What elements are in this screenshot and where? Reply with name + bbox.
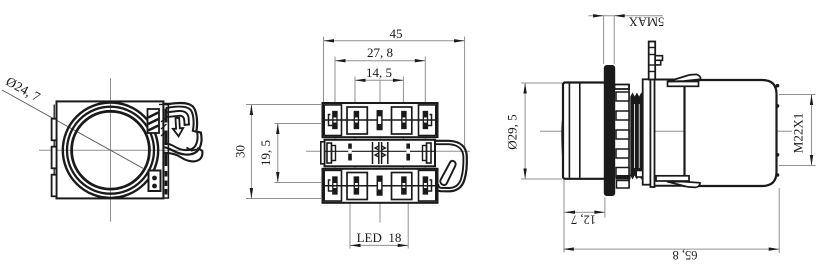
- strip dash 4: [165, 171, 168, 177]
- thread bottom tail: [616, 175, 631, 180]
- latch arrow: [173, 118, 183, 137]
- 5max ext right: [613, 16, 615, 64]
- dia29.5 ext bottom: [521, 178, 562, 180]
- centerline vertical: [110, 78, 112, 221]
- row3 cell A: [347, 173, 367, 200]
- terminal row 2 outer: [325, 140, 436, 167]
- cap face arc: [562, 116, 563, 162]
- latch hook step: [187, 148, 198, 151]
- terminal row 1 outer: [323, 103, 438, 137]
- latch loop inner: [165, 107, 198, 151]
- row1 right cap: [419, 105, 436, 136]
- connector dot 1: [152, 176, 157, 181]
- thread block: [630, 97, 643, 176]
- row3 right cap: [419, 170, 436, 201]
- washer inner lines: [643, 107, 650, 109]
- row2 left bracket: [327, 143, 332, 163]
- thread crest zigzag top: [630, 93, 643, 97]
- castellation spine: [628, 85, 630, 189]
- ext 30 bottom: [246, 198, 321, 200]
- strip dash 3: [165, 152, 168, 166]
- row3 clamp L left: [329, 180, 333, 191]
- ext 30 top: [246, 104, 321, 106]
- flange (black): [604, 65, 615, 196]
- row1 cell B: [392, 107, 412, 134]
- right strip: [163, 104, 168, 199]
- washer: [643, 79, 651, 184]
- svg-text:Ø29, 5: Ø29, 5: [505, 114, 520, 149]
- row2 mid line: [325, 150, 436, 152]
- row1 cell A: [347, 107, 367, 134]
- row1 clamp L left: [329, 115, 333, 126]
- hatch bars: [148, 113, 158, 131]
- switch body: [685, 80, 777, 186]
- row2 latch loop inner: [435, 144, 463, 188]
- button outer circle: [63, 103, 158, 198]
- latch lever loop: [165, 111, 189, 125]
- row3 left cap: [324, 170, 341, 201]
- strip dash 5: [165, 181, 168, 187]
- top clip bar: [668, 82, 699, 87]
- 65.8 ext right: [778, 188, 780, 253]
- tower side tab: [655, 56, 662, 61]
- svg-text:30: 30: [233, 145, 248, 158]
- svg-text:45: 45: [390, 26, 403, 41]
- button cap side: [563, 83, 606, 179]
- button inner circle: [72, 111, 150, 189]
- hatched window top-right: [148, 109, 160, 133]
- dim line 30: [250, 105, 252, 199]
- dim line 65.8: [563, 248, 779, 250]
- svg-text:65, 8: 65, 8: [673, 248, 698, 262]
- dim line 45: [324, 40, 465, 42]
- row2 slot left: [348, 144, 352, 161]
- svg-text:LED 18: LED 18: [357, 230, 402, 245]
- row3 screw slots: [333, 177, 428, 194]
- row2 right bracket: [427, 143, 432, 163]
- ext 19.5 top: [275, 123, 322, 125]
- small connector box bottom-right: [149, 171, 161, 192]
- row2 left nub: [321, 142, 325, 164]
- ext LED left: [349, 203, 351, 249]
- svg-text:M22X1: M22X1: [791, 113, 806, 153]
- ext line 27.8 left: [334, 57, 336, 204]
- strip dash 6: [165, 189, 168, 195]
- centerline horizontal: [39, 149, 195, 151]
- button ring circle: [67, 107, 154, 194]
- row2 slot right: [406, 144, 410, 161]
- pivot strip marks: [161, 117, 167, 136]
- plate tab tower: [649, 42, 656, 80]
- row1 screw slots: [333, 112, 428, 129]
- dim line 12.7: [565, 211, 605, 213]
- latch lower strap: [164, 148, 202, 161]
- left tab 1: [52, 119, 57, 141]
- svg-text:14, 5: 14, 5: [366, 65, 392, 80]
- dim line LED 18: [350, 244, 408, 246]
- dim line 14.5: [355, 79, 403, 81]
- strip dash 2: [165, 131, 168, 146]
- latch loop outer: [164, 103, 201, 155]
- dim line M22: [811, 95, 813, 166]
- leader line dia 24.7: [2, 90, 143, 168]
- connector dot 2: [152, 184, 157, 189]
- ext line 45 right: [464, 37, 466, 151]
- center vline gray: [379, 81, 381, 223]
- row2 latch handle: [440, 161, 455, 185]
- shoulder top line: [655, 79, 685, 81]
- top clip wedge: [668, 74, 701, 81]
- terminal row 3 outer: [323, 169, 438, 203]
- row1 left cap: [324, 105, 341, 136]
- thread crest zigzag bottom: [630, 176, 643, 180]
- ext line 27.8 right: [424, 57, 426, 204]
- cap inner line 2: [579, 84, 581, 178]
- svg-text:27, 8: 27, 8: [367, 45, 393, 60]
- dia29.5 ext top: [521, 82, 562, 84]
- left tab 2: [52, 147, 57, 169]
- mounting plate: [650, 75, 654, 187]
- body corner step line: [159, 104, 169, 106]
- strip dash 1: [165, 109, 168, 123]
- body edge bumps: [776, 84, 780, 88]
- ext line 14.5 right: [402, 77, 404, 204]
- centerline horizontal right view: [540, 130, 792, 132]
- ext line 45 left: [323, 37, 325, 104]
- ext line 14.5 left: [354, 77, 356, 204]
- 12.7 ext right: [604, 198, 606, 218]
- bottom clip wedge: [667, 182, 700, 188]
- ext 19.5 bottom: [275, 182, 322, 184]
- row2 center contacts: [373, 142, 388, 164]
- row1 center slot: [377, 111, 382, 130]
- cap inner line 1: [568, 84, 570, 178]
- row3 clamp L right: [427, 180, 431, 191]
- svg-text:Ø24, 7: Ø24, 7: [3, 74, 43, 105]
- M22 ext bottom: [779, 165, 816, 167]
- dim line dia29.5: [524, 83, 526, 179]
- center hline gray: [306, 150, 470, 152]
- row3 center slot: [377, 176, 382, 195]
- row1 clamp L right: [427, 115, 431, 126]
- svg-text:5MAX: 5MAX: [629, 14, 664, 28]
- M22 ext top: [779, 94, 816, 96]
- body square front: [57, 101, 164, 198]
- dim line 5max: [588, 15, 663, 17]
- shoulder bottom line: [655, 185, 685, 187]
- castellation top cap: [615, 85, 630, 90]
- row2 latch loop outer: [435, 141, 467, 192]
- ext LED right: [407, 203, 409, 249]
- 12.7 ext left: [563, 180, 565, 253]
- left rail line: [53, 105, 55, 196]
- row3 cell B: [392, 173, 412, 200]
- svg-text:12, 7: 12, 7: [571, 212, 596, 226]
- bottom clip bar: [656, 176, 689, 181]
- dim line 19.5: [277, 124, 279, 183]
- left tab 3: [52, 175, 57, 197]
- svg-text:19, 5: 19, 5: [258, 140, 273, 166]
- row1 mid line: [323, 119, 438, 121]
- dim line 27.8: [335, 60, 425, 62]
- washer bottom tab: [636, 171, 643, 178]
- 5max ext left: [603, 16, 605, 64]
- castellation teeth: [616, 92, 629, 188]
- row3 mid line: [323, 185, 438, 187]
